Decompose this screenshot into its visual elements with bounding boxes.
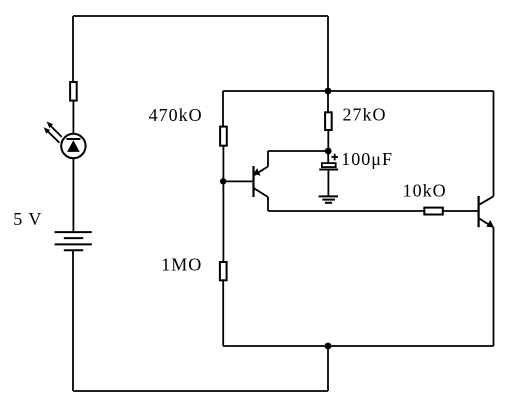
capacitor C1 100uF: plus sign [332,154,339,161]
transistor Q1 (PNP): base wire [223,180,254,182]
svg-text:100μF: 100μF [341,149,393,169]
wire: riser from top wire down to inner box top edge [327,16,329,91]
wire: collector horizontal to 10k [268,210,424,212]
wire: 10k to Q2 base [443,210,479,212]
LED D1: cathode bar [66,138,80,140]
LED D1: light arrow 1 (upper) [47,122,62,137]
wire: outer top (battery+ to inner box riser) [73,15,328,17]
wire: left rail between LED and battery [72,158,74,232]
node: junction dot top (27k branch) [325,88,332,95]
resistor R-led (series resistor on left rail) [70,82,77,101]
ground: line 2 [322,199,335,201]
wire: left edge below 1M to bottom corner [222,280,224,346]
node: junction dot at PNP base [220,178,226,184]
wire: Q2 emitter vertical (inner box right edge lower) [493,228,495,347]
svg-text:27kO: 27kO [343,105,387,125]
resistor R 470k [220,127,227,146]
svg-text:1MO: 1MO [161,255,202,275]
wire: inner box bottom edge [223,345,494,347]
transistor Q1: collector diagonal [254,188,268,197]
capacitor C1: top plate (hollow box) [322,163,336,167]
resistor R 10k (horizontal) [424,208,443,215]
wire: outer bottom [73,390,328,392]
transistor Q1: emitter diagonal [254,167,268,176]
battery B1: plate 4 (short) [64,249,83,251]
resistor R 27k [325,112,332,130]
ground: line 1 [319,195,338,197]
battery B1: plate 2 (short) [64,237,83,239]
resistor R 1M [220,262,227,280]
transistor Q2: emitter arrowhead (points away from bar) [486,220,494,227]
svg-text:10kO: 10kO [403,180,447,200]
node: junction dot at capacitor top [325,148,332,155]
battery B1 5V: plate 1 (long) [55,231,92,233]
LED D1: circle [61,134,85,158]
wire: left rail below battery [72,250,74,391]
wire: 27k branch from top edge [327,91,329,112]
wire: bottom riser up to inner box bottom edge [327,346,329,391]
transistor Q1: base bar [252,166,254,197]
wire: inner box top edge [223,90,494,92]
wire: cap node to top plate [327,151,329,163]
node: junction dot bottom [325,343,332,350]
transistor Q2: emitter diagonal [479,218,494,227]
LED D1: light arrow 2 (lower) [44,127,60,142]
wire: 27k to cap node [327,130,329,151]
wire: inner box left edge upper (to 470k) [222,91,224,127]
transistor Q2 (NPN): base bar [478,196,480,227]
wire: left edge between 470k and base node [222,146,224,262]
transistor Q1: emitter arrowhead (points at base bar) [253,168,260,175]
ground: line 3 [325,202,332,204]
wire: collector vertical down [267,197,269,211]
capacitor C1: bottom plate [319,169,338,171]
wire: emitter vertical up [267,151,269,167]
wire: Q2 collector vertical (inner box right edge upper) [493,91,495,196]
wire: emitter horizontal to cap node [268,150,328,152]
wire: cap bottom to ground [327,170,329,197]
battery B1: plate 3 (long) [55,243,92,245]
wire: left rail top segment [72,16,74,82]
transistor Q2: collector diagonal [479,196,494,205]
wire: left rail between resistor and LED [72,101,74,134]
svg-text:470kO: 470kO [149,105,203,125]
LED D1: anode triangle [67,140,80,152]
svg-text:5 V: 5 V [13,209,42,229]
